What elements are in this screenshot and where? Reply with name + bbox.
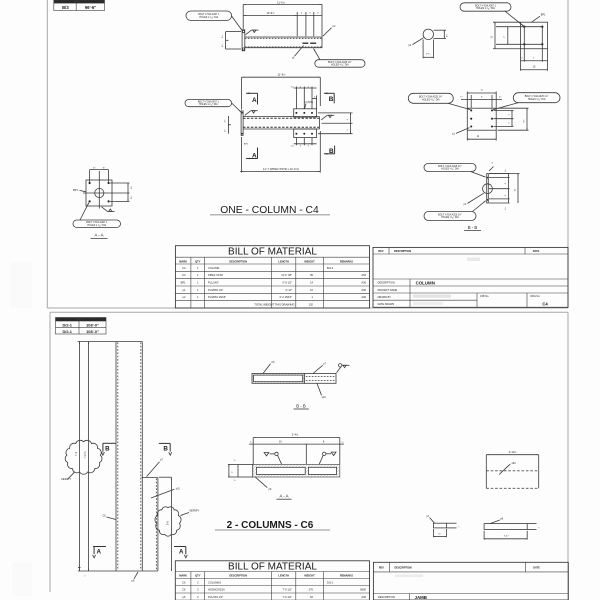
e60 detail dim <box>486 454 538 456</box>
column C6 short elevation <box>142 477 158 479</box>
svg-text:REV: REV <box>379 567 384 570</box>
sheet1 grid location table <box>54 0 105 11</box>
bottom left tick <box>78 567 81 569</box>
A-A sheet2 weld symbol 1 <box>264 453 269 456</box>
callout bolt A307 view2 <box>185 100 232 107</box>
svg-text:A36: A36 <box>361 281 366 285</box>
svg-text:BOTTOM ELEVATION: BOTTOM ELEVATION <box>82 319 103 322</box>
svg-text:e10: e10 <box>176 487 181 490</box>
svg-text:BP1: BP1 <box>73 189 78 192</box>
short column top dim ext <box>159 476 172 478</box>
svg-text:A53: A53 <box>361 273 366 277</box>
svg-text:0'-11": 0'-11" <box>286 288 292 292</box>
weld symbol B-B sheet2 <box>337 367 342 373</box>
column C4 pipe top view <box>245 36 322 38</box>
svg-text:C4: C4 <box>542 301 548 306</box>
A-A sheet2 tube bar hatched <box>253 464 340 477</box>
svg-text:10'-9⅞: 10'-9⅞ <box>266 11 275 15</box>
title block sheet1 frame <box>373 247 568 307</box>
svg-text:PL1/2X2 1/2": PL1/2X2 1/2" <box>208 595 223 599</box>
sheet1 bottom border <box>47 307 568 309</box>
sheet2 top border <box>50 311 568 313</box>
svg-text:C6: C6 <box>182 580 186 584</box>
svg-text:HOLES 1 ¹⁄₁₆" DIA: HOLES 1 ¹⁄₁₆" DIA <box>199 103 218 106</box>
svg-text:A: A <box>96 548 101 555</box>
svg-text:120: 120 <box>309 303 314 307</box>
svg-text:0'-2 15/16": 0'-2 15/16" <box>280 295 292 299</box>
plate p1 bottom elevation <box>294 129 317 138</box>
section marker B bottom <box>324 153 335 155</box>
A-A sheet2 inner tubes <box>256 467 305 474</box>
svg-text:BOLT ¾"DIA A325 1¾": BOLT ¾"DIA A325 1¾" <box>419 96 443 99</box>
svg-text:B/2-3: B/2-3 <box>327 266 334 270</box>
sheet2 grid location table <box>56 318 107 335</box>
svg-text:B: B <box>329 148 334 155</box>
weld symbol view2 left <box>245 111 251 116</box>
svg-text:A36: A36 <box>361 288 366 292</box>
svg-text:DRG No.: DRG No. <box>531 295 541 298</box>
svg-text:JAMB: JAMB <box>415 595 427 600</box>
A-A pipe circle <box>95 188 104 197</box>
svg-text:D/2-1: D/2-1 <box>327 580 334 584</box>
callout bolt A325 p1 left <box>408 93 453 103</box>
svg-text:A500: A500 <box>360 588 367 592</box>
section B-B pipe circle <box>483 184 493 194</box>
svg-text:BOTTOM ELEVATION: BOTTOM ELEVATION <box>80 1 101 4</box>
svg-text:PL3/8X6 1/2": PL3/8X6 1/2" <box>208 288 223 292</box>
svg-text:LENGTH: LENGTH <box>278 259 289 263</box>
svg-text:JOB No.: JOB No. <box>480 295 489 298</box>
p1 detail right dim 6.5 <box>498 107 529 109</box>
svg-text:GRID LOCATION: GRID LOCATION <box>58 1 74 4</box>
callout bolt A325 view1 <box>315 60 365 67</box>
svg-text:LENGTH: LENGTH <box>278 574 289 578</box>
A-A sheet2 weld symbol 2 <box>323 452 326 455</box>
margin scan smudges <box>10 262 32 308</box>
svg-text:A - A: A - A <box>279 493 288 498</box>
view1 left dim 3.5/3.5 <box>225 32 227 49</box>
svg-text:B/3: B/3 <box>62 5 69 10</box>
svg-text:A: A <box>252 97 257 104</box>
svg-text:HOLES ¹³⁄₁₆" DIA: HOLES ¹³⁄₁₆" DIA <box>528 98 546 101</box>
svg-text:BOLT ¾"DIA A325 1¾": BOLT ¾"DIA A325 1¾" <box>525 95 549 98</box>
svg-text:e60: e60 <box>512 462 517 465</box>
svg-text:VERIFY: VERIFY <box>189 509 199 513</box>
p1 detail top dims <box>466 92 468 109</box>
B-B thickness dim <box>489 167 494 172</box>
svg-text:C6: C6 <box>182 588 186 592</box>
e60 dashed bar <box>485 471 487 489</box>
svg-text:1⅞: 1⅞ <box>291 144 294 147</box>
svg-text:COLUMN: COLUMN <box>416 281 435 286</box>
base plate BP1 top view <box>242 30 245 51</box>
svg-text:DATE: DATE <box>533 250 540 253</box>
callout bolt A325 p1 right <box>513 93 560 103</box>
svg-text:7'-0 1/2": 7'-0 1/2" <box>283 595 293 599</box>
svg-text:B: B <box>329 96 334 103</box>
view1 hole spacing dims 3,3,3 <box>297 14 322 16</box>
column C6 tall elevation <box>115 342 117 572</box>
svg-text:2¹⁵⁄₁₆: 2¹⁵⁄₁₆ <box>426 53 431 56</box>
svg-text:BOLT ¾"DIA A307 1: BOLT ¾"DIA A307 1 <box>198 13 220 16</box>
weld symbol A-A <box>102 207 108 212</box>
svg-text:PIPE3 XSTD: PIPE3 XSTD <box>208 273 223 277</box>
callout bolt A307 BP1 <box>460 3 511 11</box>
svg-text:BOLT ¾"DIA A325 1¾": BOLT ¾"DIA A325 1¾" <box>438 213 462 216</box>
svg-text:11'-7 (PIPE3 XSTD x 11'-6⅞): 11'-7 (PIPE3 XSTD x 11'-6⅞) <box>263 167 299 171</box>
A-A center lines <box>83 192 130 194</box>
section marker B right sheet2 <box>159 442 170 444</box>
B-B sheet2 tube C6 <box>252 374 304 384</box>
svg-text:0'-9 1/2": 0'-9 1/2" <box>283 281 293 285</box>
A-A right dim 3.5/3.5 <box>110 182 130 184</box>
bill of material table sheet2 <box>175 561 369 600</box>
detail p2 circle <box>423 29 433 39</box>
svg-text:REMARKS: REMARKS <box>340 574 353 578</box>
B-B overall dim 11 <box>489 173 520 175</box>
A-A sheet2 top dim <box>253 437 340 439</box>
sheet1 right border <box>567 0 569 308</box>
A-A top dim 3.5/3.5 <box>89 170 91 182</box>
svg-text:DATE DRAWN: DATE DRAWN <box>378 303 395 306</box>
svg-text:TOTAL WEIGHT THIS DRAWING: TOTAL WEIGHT THIS DRAWING <box>254 303 294 307</box>
svg-text:GRID LOCATION: GRID LOCATION <box>59 319 75 322</box>
callout bolt A307 view1 <box>186 11 232 20</box>
svg-text:DESCRIPTION: DESCRIPTION <box>378 596 395 599</box>
svg-text:HOLES ¹³⁄₁₆" DIA: HOLES ¹³⁄₁₆" DIA <box>441 216 459 219</box>
svg-text:BOLT ¾"DIA A325 1¾": BOLT ¾"DIA A325 1¾" <box>328 61 352 64</box>
svg-text:QTY: QTY <box>195 574 201 578</box>
plate p1 detail <box>467 108 496 130</box>
base plate BP1 plan <box>521 22 548 49</box>
detail p8 plate <box>484 524 527 530</box>
A-A bolt holes <box>89 182 91 184</box>
detail p2 bottom dim <box>422 40 424 59</box>
columns bottom edge <box>78 570 158 572</box>
base plate BP1 edge view2 <box>241 111 243 135</box>
svg-text:1'-4⅞: 1'-4⅞ <box>292 433 299 437</box>
svg-text:A - A: A - A <box>94 233 103 238</box>
svg-text:A: A <box>252 153 257 160</box>
view1 slotted holes p1 <box>303 42 309 44</box>
sheet2 right border <box>567 312 569 600</box>
svg-text:A: A <box>179 549 184 556</box>
BP1 dim 10 left <box>493 21 521 23</box>
view2 left dim 3.5/3.5 <box>227 116 229 134</box>
svg-text:108'-0": 108'-0" <box>86 322 99 327</box>
p1 detail right dims 3/3 <box>494 109 514 111</box>
weld symbol view2 right <box>321 115 327 120</box>
svg-text:DRAWN BY: DRAWN BY <box>378 296 392 299</box>
title block rev header sheet1 <box>373 253 568 255</box>
BP1 dim 7 left <box>507 27 509 45</box>
callout bolt A307 A-A <box>73 220 121 228</box>
svg-text:HSS6X2X3/16: HSS6X2X3/16 <box>208 588 225 592</box>
svg-text:1⅞: 1⅞ <box>291 85 294 88</box>
svg-text:A36: A36 <box>361 295 366 299</box>
svg-text:BP1: BP1 <box>541 14 546 17</box>
section marker A bottom <box>246 158 257 160</box>
svg-text:COLUMN: COLUMN <box>208 266 219 270</box>
section marker A left sheet2 <box>93 546 106 548</box>
view1 dim 10'-9 7/8 <box>243 14 297 16</box>
svg-text:PROJECT NAME: PROJECT NAME <box>378 289 398 292</box>
svg-text:BILL OF MATERIAL: BILL OF MATERIAL <box>228 247 317 258</box>
view2 bottom plate dims <box>295 138 297 145</box>
svg-text:MARK: MARK <box>179 259 187 263</box>
svg-text:A36: A36 <box>361 595 366 599</box>
svg-text:B - B: B - B <box>468 225 478 230</box>
p1 detail holes <box>470 109 472 111</box>
revision cloud left <box>65 440 102 474</box>
section marker B top <box>324 92 334 94</box>
svg-text:DESCRIPTION: DESCRIPTION <box>394 250 411 253</box>
sheet1 left border <box>46 0 48 308</box>
callout bolt A325 B-B top <box>424 164 476 172</box>
svg-text:2¼: 2¼ <box>445 34 448 37</box>
svg-text:7'-4: 7'-4 <box>74 451 78 456</box>
svg-text:BILL OF MATERIAL: BILL OF MATERIAL <box>228 562 317 573</box>
section marker A top <box>246 92 257 94</box>
svg-text:BOLT ¾"DIA A307 1: BOLT ¾"DIA A307 1 <box>475 4 497 7</box>
svg-text:96'-6": 96'-6" <box>85 5 96 10</box>
left dim lines sheet2 <box>79 342 81 572</box>
svg-text:2'-11⅝: 2'-11⅝ <box>509 450 517 454</box>
svg-text:HOLES 1 ¹⁄₁₆" DIA: HOLES 1 ¹⁄₁₆" DIA <box>199 16 218 19</box>
svg-text:BOLT ¾"DIA A307 1: BOLT ¾"DIA A307 1 <box>198 101 220 104</box>
B-B right dims <box>489 173 510 175</box>
svg-text:MARK: MARK <box>179 574 187 578</box>
title block rev header sheet2 <box>373 571 568 573</box>
column C4 pipe elevation <box>243 116 319 118</box>
svg-text:C4: C4 <box>182 266 186 270</box>
svg-text:HOLES ¹³⁄₁₆" DIA: HOLES ¹³⁄₁₆" DIA <box>441 168 459 171</box>
svg-text:WEIGHT: WEIGHT <box>304 574 315 578</box>
svg-text:7'-0 1/2": 7'-0 1/2" <box>283 588 293 592</box>
title block sheet2 frame <box>373 562 568 600</box>
detail p7 plate <box>434 523 447 528</box>
svg-text:DATE: DATE <box>533 567 540 570</box>
A-A sheet2 left dims <box>228 463 238 465</box>
svg-text:BP1: BP1 <box>181 281 186 285</box>
svg-text:BOLT ¾"DIA A307 1: BOLT ¾"DIA A307 1 <box>86 221 108 224</box>
svg-text:11'-6 7/8": 11'-6 7/8" <box>281 273 292 277</box>
revision cloud right <box>155 507 181 536</box>
svg-text:REV: REV <box>378 250 383 253</box>
svg-text:BOLT ¾"DIA A325 1¾": BOLT ¾"DIA A325 1¾" <box>438 165 462 168</box>
svg-text:276: 276 <box>309 588 314 592</box>
svg-text:WEIGHT: WEIGHT <box>304 259 315 263</box>
p1 detail bottom dim 11 <box>466 131 468 141</box>
svg-text:B: B <box>105 446 110 453</box>
svg-text:REMARKS: REMARKS <box>340 259 353 263</box>
svg-text:3'-0: 3'-0 <box>166 520 170 525</box>
svg-text:PL1/2X9": PL1/2X9" <box>208 281 219 285</box>
svg-text:e10: e10 <box>322 396 327 399</box>
svg-text:108'-0": 108'-0" <box>86 329 99 334</box>
section B-B plate edge <box>487 174 489 204</box>
svg-text:VERIFY: VERIFY <box>61 477 71 481</box>
title block bottom row sheet2 <box>373 593 568 595</box>
BP1 hole center lines <box>496 26 542 28</box>
bill of material table sheet1 <box>175 246 369 308</box>
svg-text:⅜: ⅜ <box>491 163 493 165</box>
section marker A right sheet2 <box>174 546 186 548</box>
view2 overall dim 11'-6 7/8 <box>242 76 321 78</box>
svg-text:HOLES 1 ¹⁄₁₆" DIA: HOLES 1 ¹⁄₁₆" DIA <box>476 7 495 10</box>
A-A sheet2 second dims <box>305 444 307 464</box>
svg-text:HOLES 1 ¹⁄₁₆" DIA: HOLES 1 ¹⁄₁₆" DIA <box>87 224 106 227</box>
svg-text:ONE - COLUMN - C4: ONE - COLUMN - C4 <box>220 205 319 216</box>
svg-text:DESCRIPTION: DESCRIPTION <box>378 281 395 284</box>
view2 bottom overall dim <box>241 137 243 173</box>
svg-text:QTY: QTY <box>195 259 201 263</box>
B-B sheet2 plate p7 <box>304 374 336 384</box>
right dim line sheet2 <box>170 477 172 571</box>
view2 right dim 4/4 <box>318 112 353 114</box>
BP1 bolt holes <box>523 26 525 28</box>
BP1 dim 1.5-7 bottom <box>520 49 522 71</box>
svg-text:D/2-1: D/2-1 <box>62 329 72 334</box>
svg-text:B - B: B - B <box>296 403 306 408</box>
svg-text:PL3/8X2 15/16": PL3/8X2 15/16" <box>208 295 226 299</box>
faint smudges title block sheet1 <box>467 258 480 262</box>
callout bolt A325 B-B bottom <box>424 212 476 221</box>
weld symbol view1 <box>246 30 252 35</box>
svg-text:DESCRIPTION: DESCRIPTION <box>229 259 247 263</box>
plate p1 top elevation <box>294 109 317 117</box>
section marker B left sheet2 <box>103 442 116 444</box>
svg-text:C4: C4 <box>182 273 186 277</box>
faint smudge sheet2 <box>395 575 423 578</box>
svg-text:7'-0 ½: 7'-0 ½ <box>83 451 87 459</box>
svg-text:11'-6⅞: 11'-6⅞ <box>277 0 285 4</box>
column C6 top edge <box>78 341 143 343</box>
section A-A base plate <box>86 180 112 206</box>
view2 top plate dims <box>295 87 297 109</box>
sheet2 left border <box>49 312 51 592</box>
svg-text:HOLES ¹³⁄₁₆" DIA: HOLES ¹³⁄₁₆" DIA <box>422 98 440 101</box>
svg-text:DESCRIPTION: DESCRIPTION <box>395 567 412 570</box>
svg-text:COLUMNS: COLUMNS <box>208 580 221 584</box>
svg-text:2 - COLUMNS - C6: 2 - COLUMNS - C6 <box>227 520 314 531</box>
title block rows sheet1 <box>373 278 568 280</box>
view1 overall dim 11'-6 7/8 <box>243 3 322 5</box>
A-A sheet2 left plate <box>238 464 253 477</box>
svg-text:B: B <box>163 446 168 453</box>
svg-text:D/2-1: D/2-1 <box>62 322 72 327</box>
view2 dim 3 right top <box>316 96 318 109</box>
BP1 dim 10 bottom <box>521 69 548 71</box>
svg-text:11'-6⅞: 11'-6⅞ <box>278 73 286 77</box>
svg-text:DESCRIPTION: DESCRIPTION <box>229 574 247 578</box>
svg-text:HOLES ¹³⁄₁₆" DIA: HOLES ¹³⁄₁₆" DIA <box>331 64 349 67</box>
